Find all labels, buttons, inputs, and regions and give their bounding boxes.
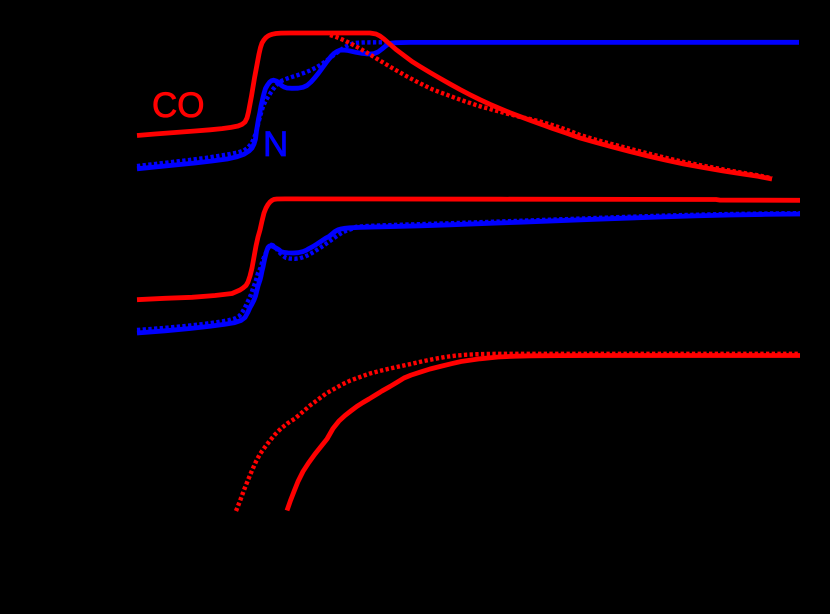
svg-text:CO: CO	[152, 86, 205, 125]
top panel: N dotted curve	[137, 42, 390, 166]
svg-text:N: N	[263, 125, 288, 164]
middle panel: CO solid curve with plateau	[137, 199, 800, 300]
bottom panel: CO dotted rising curve	[236, 354, 800, 511]
top panel: CO dotted decay curve	[330, 35, 772, 178]
middle panel: N solid curve	[137, 214, 800, 333]
top panel: CO solid curve	[137, 33, 772, 179]
bottom panel: CO solid rising curve	[287, 356, 800, 511]
middle panel: N dotted curve	[137, 213, 800, 330]
top panel: N solid curve with flat plateau to right edge	[137, 42, 799, 169]
